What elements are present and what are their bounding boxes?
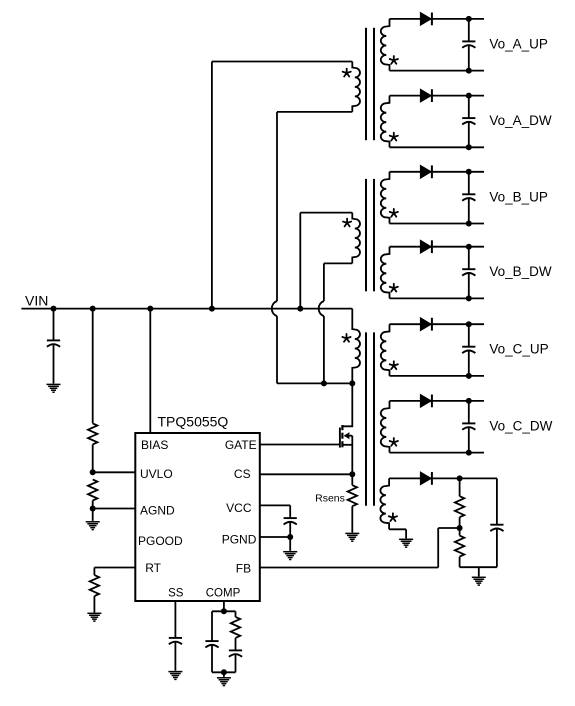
svg-text:RT: RT [145, 561, 161, 575]
svg-text:Vo_A_DW: Vo_A_DW [489, 113, 552, 128]
svg-text:VCC: VCC [226, 501, 252, 515]
svg-text:PGND: PGND [222, 533, 257, 547]
svg-text:TPQ5055Q: TPQ5055Q [158, 414, 229, 430]
svg-text:GATE: GATE [225, 438, 257, 452]
svg-text:BIAS: BIAS [141, 438, 168, 452]
svg-text:AGND: AGND [140, 504, 175, 518]
svg-text:UVLO: UVLO [140, 467, 173, 481]
svg-text:Vo_C_DW: Vo_C_DW [489, 418, 552, 433]
svg-text:Vo_B_UP: Vo_B_UP [489, 189, 548, 204]
svg-text:Rsens: Rsens [315, 493, 345, 505]
svg-text:CS: CS [234, 467, 251, 481]
svg-text:PGOOD: PGOOD [138, 534, 183, 548]
svg-text:Vo_B_DW: Vo_B_DW [489, 264, 552, 279]
svg-text:Vo_C_UP: Vo_C_UP [489, 342, 548, 357]
svg-text:VIN: VIN [25, 293, 48, 309]
svg-text:Vo_A_UP: Vo_A_UP [489, 36, 548, 51]
svg-text:COMP: COMP [206, 587, 241, 599]
svg-text:FB: FB [236, 562, 251, 576]
svg-text:SS: SS [168, 587, 184, 599]
